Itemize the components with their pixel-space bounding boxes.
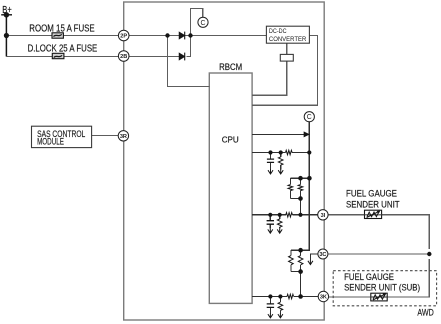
svg-text:FUEL GAUGE: FUEL GAUGE: [346, 188, 397, 199]
svg-text:2B: 2B: [120, 54, 127, 60]
svg-text:AWD: AWD: [417, 307, 434, 317]
svg-text:C: C: [307, 114, 312, 121]
svg-text:3I: 3I: [321, 213, 326, 219]
svg-text:CPU: CPU: [222, 136, 239, 145]
svg-text:3K: 3K: [320, 295, 327, 301]
svg-text:SENDER UNIT (SUB): SENDER UNIT (SUB): [344, 282, 420, 293]
svg-text:RBCM: RBCM: [219, 62, 242, 72]
svg-text:3R: 3R: [120, 134, 127, 140]
svg-text:B+: B+: [2, 5, 12, 16]
svg-text:FUEL GAUGE: FUEL GAUGE: [344, 271, 394, 282]
svg-text:3C: 3C: [319, 252, 326, 258]
svg-text:MODULE: MODULE: [37, 137, 64, 147]
svg-text:SENDER UNIT: SENDER UNIT: [346, 198, 400, 209]
svg-text:2P: 2P: [120, 34, 127, 40]
svg-text:D.LOCK 25 A FUSE: D.LOCK 25 A FUSE: [28, 43, 98, 54]
svg-text:CONVERTER: CONVERTER: [269, 36, 307, 43]
svg-text:ROOM 15 A FUSE: ROOM 15 A FUSE: [29, 24, 95, 35]
svg-text:DC-DC: DC-DC: [269, 28, 287, 35]
svg-text:C: C: [201, 20, 206, 27]
